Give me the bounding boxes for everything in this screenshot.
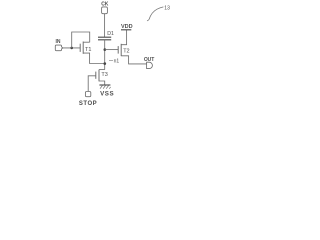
wire CK pad to capacitor D1 [104,14,106,38]
transistor T1 drain lead [83,41,90,43]
transistor T3 source lead to ground [99,81,105,85]
svg-text:T1: T1 [85,47,91,53]
wire T1 gate-to-drain feedback loop [72,32,90,48]
terminal pad STOP [85,92,90,97]
leader curve for reference numeral 13 [147,7,163,21]
svg-text:D1: D1 [107,31,114,37]
terminal pad CK [102,7,108,14]
transistor T3 channel bar [98,70,100,82]
svg-text:VDD: VDD [121,24,133,30]
wire IN pad to T1 gate [63,47,80,49]
svg-text:IN: IN [56,39,61,45]
transistor T1 source lead wire to node n1 [83,53,105,63]
junction dot T2 gate branch [104,48,107,51]
transistor T2 drain lead to VDD [121,30,126,45]
svg-text:VSS: VSS [100,91,114,98]
transistor T3 drain lead [99,69,105,71]
wire T3 gate to STOP pad [88,76,96,92]
terminal pad IN [55,45,63,51]
svg-text:13: 13 [164,6,170,12]
wire n1 branch to T2 gate [105,49,118,51]
ground symbol hatches [100,86,111,89]
leader dash for node n1 [109,60,113,62]
transistor T3 gate bar [95,72,97,79]
ground symbol bar VSS [99,84,110,86]
svg-text:T2: T2 [123,48,129,54]
transistor T1 gate bar [79,44,81,52]
svg-text:n1: n1 [114,59,120,65]
transistor T2 gate bar [117,46,119,54]
junction dot on IN wire [70,47,73,50]
transistor T1 channel bar [82,42,84,54]
power symbol VDD bar [121,29,131,31]
capacitor D1 top plate [98,36,111,38]
transistor T2 source lead wire to OUT [121,56,146,64]
junction dot node n1 [104,62,107,65]
svg-text:STOP: STOP [79,101,97,107]
capacitor D1 bottom plate [98,39,111,41]
terminal pad OUT [147,62,153,68]
svg-text:OUT: OUT [144,57,154,63]
transistor T2 channel bar [120,44,122,56]
wire D1 to node n1 to T3 drain [104,40,106,70]
svg-text:T3: T3 [101,72,107,78]
